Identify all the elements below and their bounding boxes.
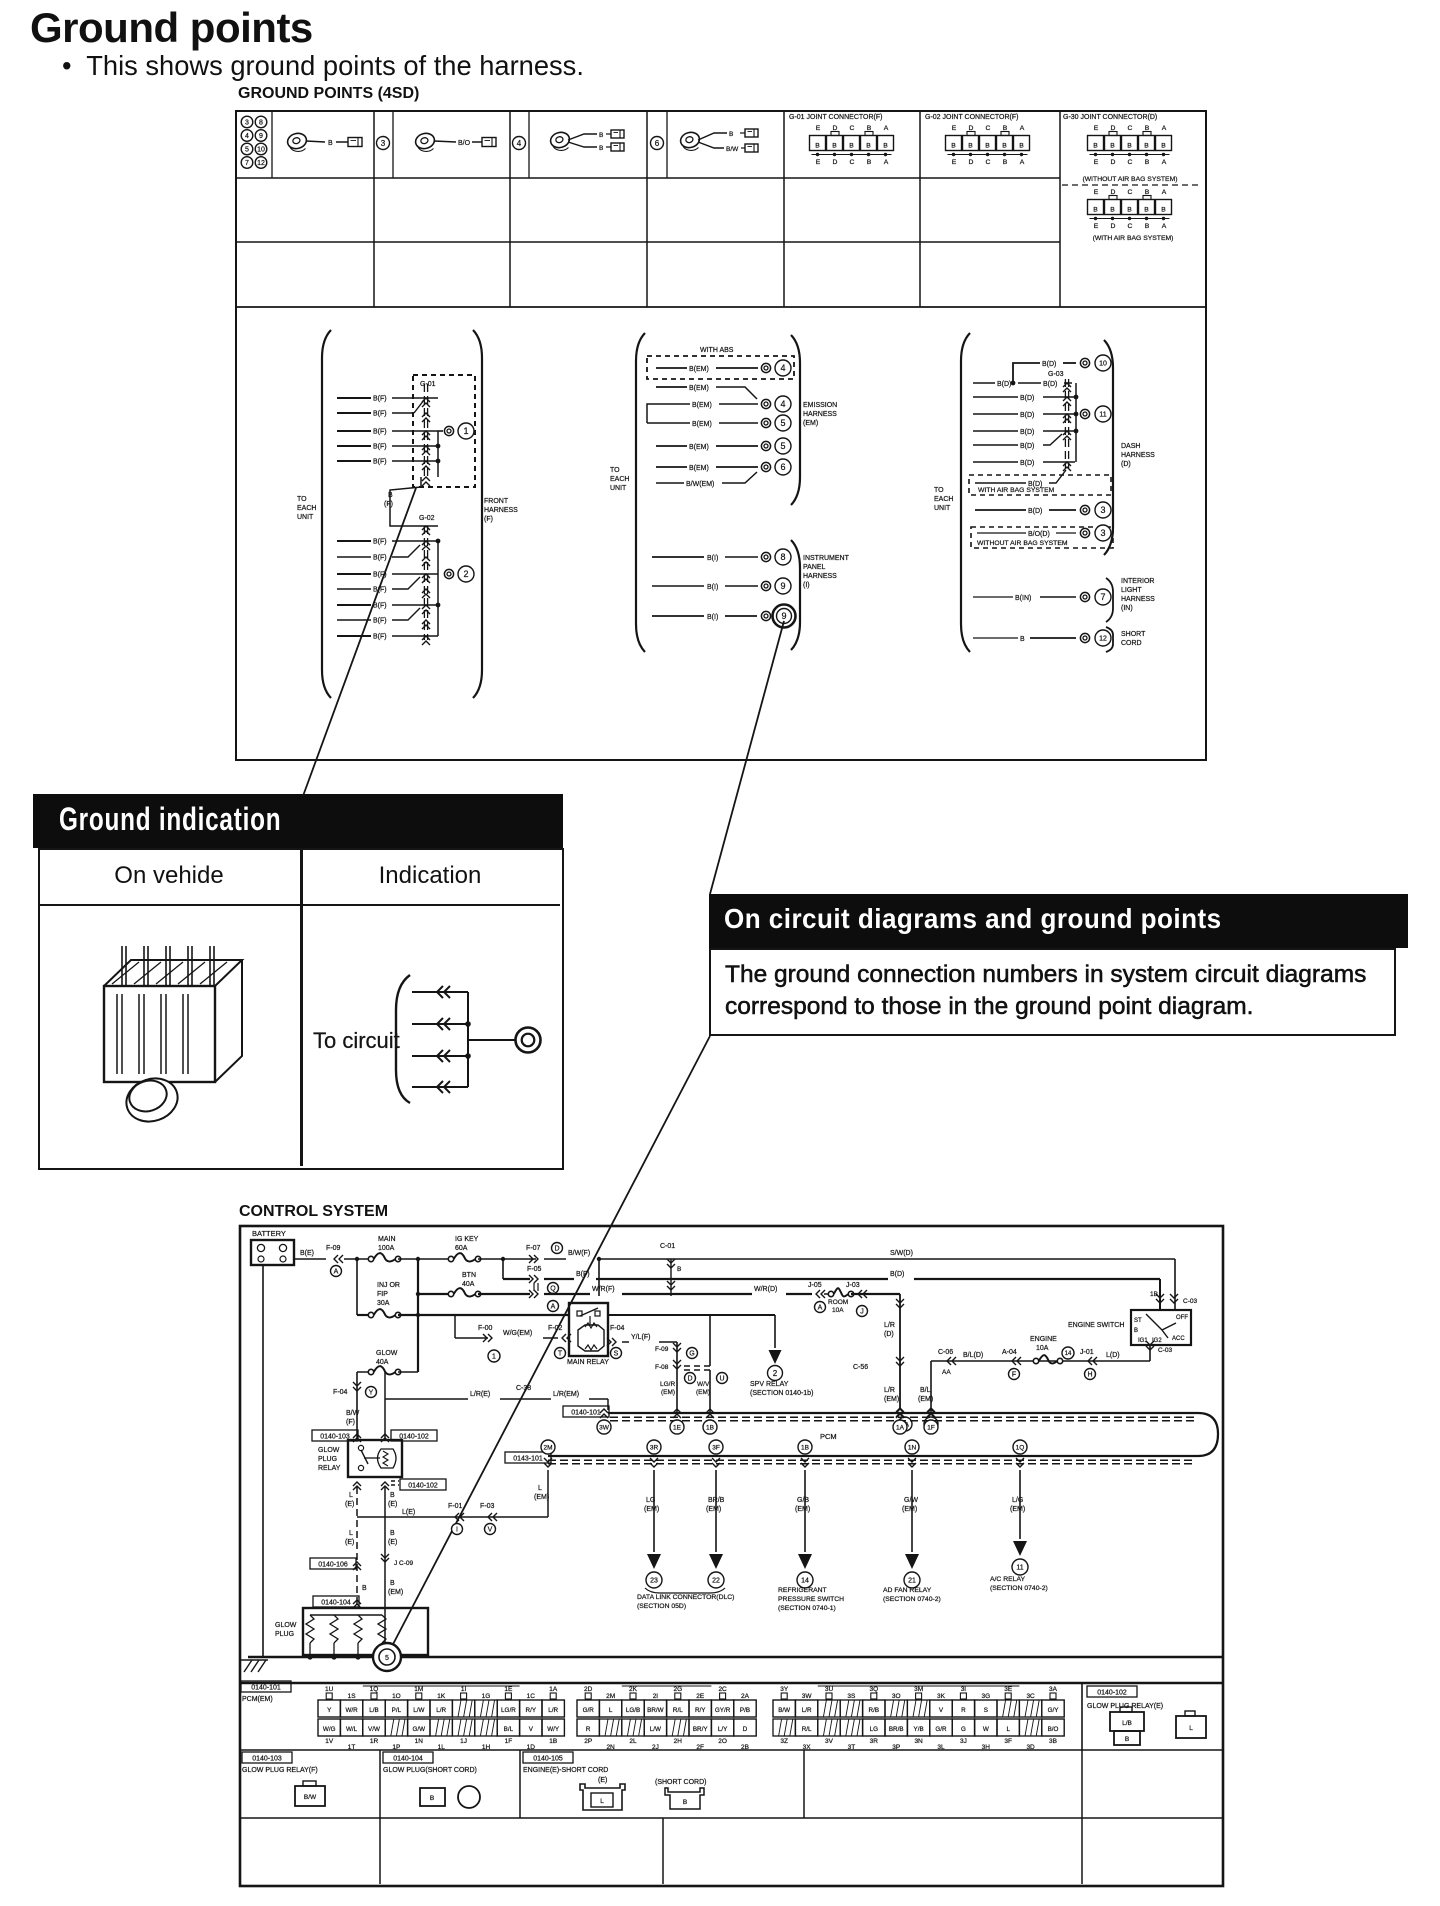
svg-text:B/L: B/L bbox=[504, 1726, 514, 1733]
svg-text:L/R(EM): L/R(EM) bbox=[553, 1391, 579, 1398]
svg-text:G/W: G/W bbox=[904, 1497, 918, 1504]
svg-text:J: J bbox=[860, 1309, 864, 1316]
svg-text:PANEL: PANEL bbox=[803, 564, 826, 571]
svg-text:3S: 3S bbox=[847, 1693, 856, 1700]
svg-text:A: A bbox=[818, 1305, 823, 1312]
svg-text:B(F): B(F) bbox=[576, 1271, 590, 1278]
svg-text:Y: Y bbox=[369, 1390, 374, 1397]
wire W/G(EM) into main relay bbox=[455, 1315, 571, 1362]
svg-text:F-09: F-09 bbox=[655, 1346, 669, 1353]
svg-text:3O: 3O bbox=[892, 1693, 901, 1700]
svg-text:L/Y: L/Y bbox=[718, 1726, 728, 1733]
svg-text:100A: 100A bbox=[378, 1245, 395, 1252]
svg-text:B: B bbox=[683, 1799, 687, 1806]
svg-text:G/R: G/R bbox=[583, 1707, 595, 1714]
svg-text:B: B bbox=[866, 143, 871, 150]
svg-text:F-05: F-05 bbox=[527, 1266, 542, 1273]
svg-text:F-02: F-02 bbox=[548, 1325, 563, 1332]
ground number legend cell bbox=[241, 116, 267, 168]
svg-text:1: 1 bbox=[492, 1354, 496, 1361]
svg-text:2A: 2A bbox=[741, 1693, 750, 1700]
svg-text:2I: 2I bbox=[653, 1693, 659, 1700]
ground symbol type 4 (branch B and B/W) bbox=[679, 129, 758, 153]
svg-text:3J: 3J bbox=[960, 1738, 967, 1745]
svg-text:LIGHT: LIGHT bbox=[1121, 587, 1142, 594]
svg-text:(SECTION 05D): (SECTION 05D) bbox=[637, 1603, 686, 1610]
svg-text:ROOM: ROOM bbox=[828, 1299, 848, 1306]
svg-text:W/G: W/G bbox=[323, 1726, 336, 1733]
svg-text:0140-105: 0140-105 bbox=[533, 1755, 563, 1762]
svg-text:UNIT: UNIT bbox=[610, 485, 627, 492]
svg-text:L: L bbox=[349, 1530, 353, 1537]
svg-text:1O: 1O bbox=[392, 1693, 401, 1700]
svg-text:L: L bbox=[600, 1798, 604, 1805]
svg-text:B: B bbox=[849, 143, 854, 150]
engine short cord cell 0140-105 bbox=[523, 1752, 706, 1810]
svg-text:EACH: EACH bbox=[934, 496, 953, 503]
svg-text:DATA LINK CONNECTOR(DLC): DATA LINK CONNECTOR(DLC) bbox=[637, 1594, 734, 1601]
svg-text:L: L bbox=[349, 1492, 353, 1499]
glow plug relay output wires bbox=[310, 1470, 549, 1647]
svg-text:E: E bbox=[952, 125, 957, 132]
bullet note bbox=[62, 50, 584, 82]
svg-text:4: 4 bbox=[245, 133, 249, 140]
svg-text:1T: 1T bbox=[348, 1744, 356, 1751]
interior light harness ground point 7 bbox=[973, 578, 1155, 622]
relay output line to SPV bbox=[608, 1315, 775, 1412]
control system outer frame bbox=[240, 1226, 1223, 1886]
svg-text:C-56: C-56 bbox=[853, 1364, 868, 1371]
svg-text:ENGINE SWITCH: ENGINE SWITCH bbox=[1068, 1322, 1124, 1329]
svg-text:TO: TO bbox=[610, 467, 620, 474]
fuse MAIN 100A bbox=[368, 1236, 451, 1262]
svg-text:F: F bbox=[1012, 1372, 1016, 1379]
svg-text:(F): (F) bbox=[346, 1419, 355, 1426]
svg-text:(D): (D) bbox=[1121, 461, 1131, 468]
svg-text:2O: 2O bbox=[718, 1738, 727, 1745]
svg-text:B(D): B(D) bbox=[1020, 395, 1034, 402]
svg-text:B: B bbox=[677, 1266, 681, 1273]
svg-text:Y/L(F): Y/L(F) bbox=[631, 1334, 650, 1341]
svg-text:3C: 3C bbox=[1026, 1693, 1035, 1700]
svg-text:C: C bbox=[1128, 189, 1133, 196]
svg-text:HARNESS: HARNESS bbox=[803, 411, 837, 418]
svg-text:G/B: G/B bbox=[797, 1497, 809, 1504]
svg-text:(E): (E) bbox=[388, 1501, 397, 1508]
svg-text:GY/R: GY/R bbox=[715, 1707, 731, 1714]
svg-text:B(EM): B(EM) bbox=[689, 366, 709, 373]
svg-text:W/R(D): W/R(D) bbox=[754, 1286, 777, 1293]
svg-text:B(F): B(F) bbox=[373, 396, 387, 403]
svg-text:B: B bbox=[1110, 143, 1115, 150]
svg-text:B: B bbox=[328, 140, 333, 147]
svg-text:DASH: DASH bbox=[1121, 443, 1140, 450]
svg-text:3X: 3X bbox=[803, 1744, 812, 1751]
svg-text:E: E bbox=[1094, 125, 1099, 132]
svg-text:B: B bbox=[1145, 223, 1150, 230]
svg-text:B: B bbox=[1145, 125, 1150, 132]
emission harness bracket left bbox=[610, 333, 645, 652]
svg-text:3L: 3L bbox=[937, 1744, 945, 1751]
PCM bus lower terminals bbox=[541, 1440, 1027, 1467]
svg-text:SPV RELAY: SPV RELAY bbox=[750, 1381, 789, 1388]
svg-text:B(D): B(D) bbox=[1020, 443, 1034, 450]
svg-text:3D: 3D bbox=[1026, 1744, 1035, 1751]
svg-text:(SECTION 0740-1): (SECTION 0740-1) bbox=[778, 1605, 836, 1612]
svg-text:BR/B: BR/B bbox=[708, 1497, 725, 1504]
ground point 2 bbox=[444, 566, 474, 582]
joint connector G-02 bbox=[925, 114, 1030, 166]
svg-text:(F): (F) bbox=[384, 501, 393, 508]
svg-text:F-09: F-09 bbox=[326, 1245, 341, 1252]
svg-text:B: B bbox=[1127, 143, 1132, 150]
svg-text:3M: 3M bbox=[914, 1686, 923, 1693]
svg-text:L/R: L/R bbox=[802, 1707, 812, 1714]
svg-text:P/B: P/B bbox=[740, 1707, 750, 1714]
PCM output drops bbox=[644, 1470, 1028, 1588]
svg-text:60A: 60A bbox=[455, 1245, 468, 1252]
svg-text:W/R: W/R bbox=[345, 1707, 358, 1714]
svg-text:W/V: W/V bbox=[697, 1381, 710, 1388]
connector F-05 on B(F) bbox=[503, 1266, 1160, 1310]
svg-text:GLOW: GLOW bbox=[318, 1447, 340, 1454]
svg-text:B: B bbox=[1144, 143, 1149, 150]
svg-text:RELAY: RELAY bbox=[318, 1465, 341, 1472]
svg-text:AD FAN RELAY: AD FAN RELAY bbox=[883, 1587, 932, 1594]
svg-text:3W: 3W bbox=[599, 1424, 610, 1431]
svg-text:1B: 1B bbox=[549, 1738, 557, 1745]
emission ground points 4 5 5 6 bbox=[761, 396, 791, 475]
svg-text:UNIT: UNIT bbox=[934, 505, 951, 512]
svg-text:B(F): B(F) bbox=[373, 444, 387, 451]
svg-text:L: L bbox=[538, 1485, 542, 1492]
svg-text:11: 11 bbox=[1016, 1565, 1023, 1572]
svg-text:L/B: L/B bbox=[369, 1707, 378, 1714]
index circle 6 bbox=[651, 137, 664, 150]
svg-text:G: G bbox=[961, 1726, 966, 1733]
svg-text:GLOW: GLOW bbox=[275, 1622, 297, 1629]
svg-text:1C: 1C bbox=[527, 1693, 536, 1700]
svg-text:L/W: L/W bbox=[413, 1707, 424, 1714]
svg-text:B(EM): B(EM) bbox=[692, 421, 712, 428]
svg-text:B: B bbox=[599, 145, 603, 152]
svg-text:BR/B: BR/B bbox=[889, 1726, 904, 1733]
svg-text:8: 8 bbox=[259, 120, 263, 127]
svg-text:2D: 2D bbox=[584, 1686, 593, 1693]
svg-text:(D): (D) bbox=[884, 1331, 894, 1338]
svg-text:14: 14 bbox=[1065, 1351, 1072, 1357]
leader line from G-01 to ground indication box bbox=[303, 488, 416, 796]
svg-text:A: A bbox=[1020, 125, 1025, 132]
svg-text:G-03: G-03 bbox=[1048, 371, 1064, 378]
svg-text:12: 12 bbox=[1099, 636, 1107, 643]
svg-text:1B: 1B bbox=[706, 1424, 714, 1431]
svg-text:A/C RELAY: A/C RELAY bbox=[990, 1576, 1025, 1583]
svg-text:B: B bbox=[951, 143, 956, 150]
main relay bbox=[567, 1303, 609, 1366]
svg-text:1R: 1R bbox=[370, 1738, 379, 1745]
svg-text:0140-106: 0140-106 bbox=[318, 1561, 348, 1568]
svg-text:B: B bbox=[1134, 1328, 1138, 1334]
svg-text:IG KEY: IG KEY bbox=[455, 1236, 479, 1243]
svg-text:Y: Y bbox=[327, 1707, 332, 1714]
svg-text:D: D bbox=[969, 125, 974, 132]
svg-text:1K: 1K bbox=[437, 1693, 446, 1700]
svg-text:P/L: P/L bbox=[392, 1707, 402, 1714]
svg-text:Y/B: Y/B bbox=[914, 1726, 924, 1733]
svg-text:J-01: J-01 bbox=[1080, 1349, 1094, 1356]
svg-text:L/R: L/R bbox=[884, 1387, 895, 1394]
svg-text:L/R: L/R bbox=[436, 1707, 446, 1714]
ground points table frame bbox=[236, 111, 1206, 760]
svg-text:ACC: ACC bbox=[1172, 1336, 1185, 1342]
svg-text:B: B bbox=[968, 143, 973, 150]
svg-text:UNIT: UNIT bbox=[297, 514, 314, 521]
svg-text:12: 12 bbox=[257, 160, 265, 167]
svg-text:PLUG: PLUG bbox=[275, 1631, 294, 1638]
svg-text:B: B bbox=[1125, 1736, 1129, 1743]
svg-text:2M: 2M bbox=[606, 1693, 615, 1700]
svg-text:GLOW PLUG(SHORT CORD): GLOW PLUG(SHORT CORD) bbox=[383, 1767, 477, 1774]
svg-text:E: E bbox=[1094, 189, 1099, 196]
svg-text:0140-102: 0140-102 bbox=[399, 1433, 429, 1440]
svg-text:1E: 1E bbox=[673, 1424, 682, 1431]
svg-text:2: 2 bbox=[773, 1369, 778, 1378]
svg-text:10A: 10A bbox=[832, 1307, 844, 1314]
svg-text:1J: 1J bbox=[460, 1738, 467, 1745]
svg-text:C-38: C-38 bbox=[516, 1385, 531, 1392]
svg-text:1U: 1U bbox=[325, 1686, 334, 1693]
junction verticals from battery bus bbox=[355, 1257, 601, 1372]
svg-text:0140-103: 0140-103 bbox=[252, 1755, 282, 1762]
svg-text:10: 10 bbox=[257, 147, 265, 154]
svg-text:2C: 2C bbox=[718, 1686, 727, 1693]
svg-text:B(F): B(F) bbox=[373, 603, 387, 610]
svg-text:B/W: B/W bbox=[726, 146, 739, 153]
svg-text:1H: 1H bbox=[482, 1744, 491, 1751]
PCM bus upper terminals bbox=[597, 1409, 938, 1434]
svg-text:1E: 1E bbox=[504, 1686, 513, 1693]
svg-text:LG: LG bbox=[646, 1497, 655, 1504]
svg-text:1P: 1P bbox=[392, 1744, 400, 1751]
circuit diagram callout bbox=[709, 894, 1408, 948]
svg-text:D: D bbox=[743, 1726, 748, 1733]
svg-text:2M: 2M bbox=[543, 1444, 552, 1451]
svg-text:(SECTION 0140-1b): (SECTION 0140-1b) bbox=[750, 1390, 813, 1397]
PCM bus upper 0140-101 bbox=[563, 1406, 1218, 1456]
svg-text:B(D): B(D) bbox=[1042, 361, 1056, 368]
svg-text:To circuit: To circuit bbox=[313, 1028, 400, 1053]
svg-text:D: D bbox=[554, 1246, 559, 1253]
svg-text:A: A bbox=[1162, 125, 1167, 132]
connector C-01 vertical bbox=[660, 1243, 681, 1296]
svg-text:B/O: B/O bbox=[458, 140, 471, 147]
svg-text:D: D bbox=[1111, 189, 1116, 196]
svg-text:(F): (F) bbox=[484, 516, 493, 523]
svg-text:C-06: C-06 bbox=[938, 1349, 953, 1356]
svg-text:B: B bbox=[1019, 143, 1024, 150]
svg-text:B: B bbox=[1003, 159, 1008, 166]
section label ground points bbox=[238, 85, 419, 103]
svg-text:L(D): L(D) bbox=[1106, 1352, 1120, 1359]
svg-text:B: B bbox=[1144, 207, 1149, 214]
svg-text:G/R: G/R bbox=[935, 1726, 947, 1733]
svg-text:(EM): (EM) bbox=[706, 1506, 721, 1513]
svg-text:B/L(D): B/L(D) bbox=[963, 1352, 983, 1359]
joint connector G-30 without air bag bbox=[1062, 114, 1202, 185]
svg-text:AA: AA bbox=[942, 1369, 951, 1376]
svg-text:F-07: F-07 bbox=[526, 1245, 541, 1252]
svg-text:3A: 3A bbox=[1049, 1686, 1058, 1693]
svg-text:LG/R: LG/R bbox=[660, 1381, 675, 1388]
svg-text:L/W: L/W bbox=[650, 1726, 661, 1733]
svg-text:3R: 3R bbox=[870, 1738, 879, 1745]
svg-text:3: 3 bbox=[245, 120, 249, 127]
glow plug relay bbox=[312, 1430, 446, 1490]
svg-text:B(D): B(D) bbox=[1020, 429, 1034, 436]
svg-text:2N: 2N bbox=[606, 1744, 615, 1751]
svg-text:1G: 1G bbox=[482, 1693, 491, 1700]
svg-text:G-02 JOINT CONNECTOR(F): G-02 JOINT CONNECTOR(F) bbox=[925, 114, 1018, 121]
svg-text:14: 14 bbox=[801, 1578, 809, 1585]
connector table PCM(EM) 0140-101 label bbox=[241, 1681, 291, 1703]
svg-text:INTERIOR: INTERIOR bbox=[1121, 578, 1154, 585]
svg-text:B(F): B(F) bbox=[373, 459, 387, 466]
svg-text:B/W(F): B/W(F) bbox=[568, 1250, 590, 1257]
svg-text:MAIN RELAY: MAIN RELAY bbox=[567, 1359, 609, 1366]
connector F-04 and B/W(F) drop to glow plug relay bbox=[333, 1382, 377, 1426]
svg-text:B: B bbox=[599, 132, 603, 139]
svg-text:0140-102: 0140-102 bbox=[408, 1482, 438, 1489]
svg-text:D: D bbox=[969, 159, 974, 166]
svg-text:3G: 3G bbox=[981, 1693, 990, 1700]
svg-text:(SECTION 0740-2): (SECTION 0740-2) bbox=[883, 1596, 941, 1603]
dash harness ground point 3 bbox=[975, 502, 1111, 518]
svg-text:3Z: 3Z bbox=[780, 1738, 788, 1745]
svg-text:B: B bbox=[1020, 636, 1025, 643]
ground indication table bbox=[38, 848, 564, 1170]
svg-text:B: B bbox=[1003, 125, 1008, 132]
svg-text:L/G: L/G bbox=[1012, 1497, 1023, 1504]
svg-text:7: 7 bbox=[1100, 592, 1105, 602]
svg-text:LG: LG bbox=[870, 1726, 879, 1733]
svg-text:L/R: L/R bbox=[884, 1322, 895, 1329]
svg-text:D: D bbox=[687, 1376, 692, 1383]
svg-text:A: A bbox=[1162, 189, 1167, 196]
svg-text:21: 21 bbox=[908, 1578, 916, 1585]
svg-text:REFRIGERANT: REFRIGERANT bbox=[778, 1587, 827, 1594]
leader line from callout box to control system ground bbox=[390, 1036, 710, 1650]
svg-text:B(EM): B(EM) bbox=[689, 444, 709, 451]
svg-text:8: 8 bbox=[780, 552, 785, 562]
svg-text:22: 22 bbox=[712, 1578, 720, 1585]
index circle 3 bbox=[377, 137, 390, 150]
front harness group bracket left bbox=[297, 330, 331, 698]
svg-text:3F: 3F bbox=[1004, 1738, 1012, 1745]
svg-text:B: B bbox=[390, 1580, 395, 1587]
svg-text:1Q: 1Q bbox=[1016, 1444, 1025, 1451]
svg-text:FIP: FIP bbox=[377, 1291, 388, 1298]
svg-text:B: B bbox=[867, 125, 872, 132]
svg-text:L/B: L/B bbox=[1122, 1720, 1132, 1727]
svg-text:B: B bbox=[1145, 159, 1150, 166]
svg-text:B: B bbox=[867, 159, 872, 166]
svg-text:B: B bbox=[1093, 143, 1098, 150]
svg-text:C-01: C-01 bbox=[660, 1243, 675, 1250]
svg-text:J-03: J-03 bbox=[846, 1282, 860, 1289]
svg-text:G-01 JOINT CONNECTOR(F): G-01 JOINT CONNECTOR(F) bbox=[789, 114, 882, 121]
wire from G-01 to G-02 bbox=[384, 477, 438, 526]
svg-text:A: A bbox=[1162, 223, 1167, 230]
svg-text:J-05: J-05 bbox=[808, 1282, 822, 1289]
svg-text:B(F): B(F) bbox=[373, 429, 387, 436]
svg-text:W/Y: W/Y bbox=[547, 1726, 560, 1733]
fuse IG KEY 60A bbox=[448, 1236, 536, 1262]
svg-text:A: A bbox=[884, 159, 889, 166]
svg-text:B/W: B/W bbox=[304, 1794, 317, 1801]
svg-text:B: B bbox=[1127, 207, 1132, 214]
svg-text:R/Y: R/Y bbox=[695, 1707, 706, 1714]
svg-text:3P: 3P bbox=[892, 1744, 900, 1751]
svg-text:PCM(EM): PCM(EM) bbox=[242, 1696, 273, 1703]
ground symbol type 3 (two branch B wires) bbox=[549, 130, 624, 152]
PCM connector pin grid group 2 bbox=[577, 1686, 756, 1751]
svg-text:W/R(F): W/R(F) bbox=[592, 1286, 615, 1293]
relay block drawing (on vehicle) bbox=[104, 946, 242, 1128]
ground indication callout bbox=[33, 794, 563, 848]
svg-text:2E: 2E bbox=[696, 1693, 705, 1700]
svg-text:TO: TO bbox=[297, 496, 307, 503]
svg-text:R: R bbox=[586, 1726, 591, 1733]
svg-text:WITH ABS: WITH ABS bbox=[700, 347, 734, 354]
svg-text:7: 7 bbox=[245, 160, 249, 167]
svg-text:1Q: 1Q bbox=[370, 1686, 379, 1693]
svg-text:3: 3 bbox=[1100, 505, 1105, 515]
G-02 ground wires B(F) bbox=[337, 539, 438, 641]
svg-text:B(I): B(I) bbox=[707, 584, 718, 591]
svg-text:A: A bbox=[551, 1304, 556, 1311]
svg-text:(EM): (EM) bbox=[388, 1589, 403, 1596]
svg-text:3Y: 3Y bbox=[780, 1686, 789, 1693]
svg-text:(EM): (EM) bbox=[795, 1506, 810, 1513]
svg-text:C: C bbox=[1128, 159, 1133, 166]
svg-text:HARNESS: HARNESS bbox=[1121, 452, 1155, 459]
room fuse chain J-05 bbox=[808, 1282, 900, 1317]
dash harness bracket right bbox=[1104, 340, 1155, 555]
svg-text:PRESSURE SWITCH: PRESSURE SWITCH bbox=[778, 1596, 844, 1603]
svg-text:D: D bbox=[1111, 223, 1116, 230]
svg-text:INJ OR: INJ OR bbox=[377, 1282, 400, 1289]
svg-text:A: A bbox=[334, 1269, 339, 1276]
to circuit indication drawing bbox=[313, 975, 541, 1103]
svg-text:1M: 1M bbox=[414, 1686, 423, 1693]
fuse BTN 40A on W/R line bbox=[416, 1272, 812, 1312]
svg-text:(EM): (EM) bbox=[902, 1506, 917, 1513]
svg-text:B/W: B/W bbox=[346, 1410, 360, 1417]
svg-text:0140-102: 0140-102 bbox=[1097, 1689, 1127, 1696]
svg-text:9: 9 bbox=[781, 611, 786, 621]
svg-text:2L: 2L bbox=[629, 1738, 637, 1745]
joint connector G-30 with air bag bbox=[1088, 189, 1174, 242]
svg-text:23: 23 bbox=[650, 1578, 658, 1585]
joint connector G-02 bus bbox=[419, 515, 440, 645]
svg-text:2B: 2B bbox=[741, 1744, 749, 1751]
svg-text:PLUG: PLUG bbox=[318, 1456, 337, 1463]
svg-text:(EM): (EM) bbox=[696, 1389, 710, 1396]
svg-text:B(EM): B(EM) bbox=[692, 402, 712, 409]
svg-text:5: 5 bbox=[245, 147, 249, 154]
svg-text:(E): (E) bbox=[598, 1777, 607, 1784]
